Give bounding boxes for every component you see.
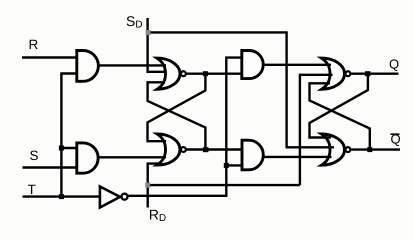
- wire S_D drop into NOR1: [148, 18, 167, 72]
- label S_D: [127, 16, 142, 27]
- NOR gate 3 (slave Q gate): [322, 58, 345, 89]
- wire NOR4 output to Qbar: [351, 148, 400, 150]
- junction master Q node: [203, 71, 208, 76]
- output label Q: [390, 59, 399, 71]
- wire AND4 output: [263, 156, 332, 158]
- AND gate 4 (master Qbar, T-bar): [242, 140, 263, 170]
- junction slave Q node: [365, 71, 371, 76]
- AND gate 2 (T, S): [77, 143, 98, 173]
- wire R_D vertical to NOR3: [300, 75, 333, 185]
- input label R: [30, 40, 38, 49]
- wire master cross P: [148, 74, 206, 142]
- wire T-bar from inverter up to AND3: [128, 58, 243, 196]
- wire T-bar to AND4: [226, 164, 243, 166]
- input label S: [30, 151, 38, 161]
- wire slave feedback F: [310, 83, 370, 149]
- output label Qbar: [391, 134, 400, 146]
- wire slave cross P: [310, 74, 368, 138]
- wire NOR3 output to Q: [351, 72, 399, 74]
- AND gate 1 (R, T): [77, 51, 99, 82]
- wire S_D branch horizontal: [148, 31, 287, 33]
- junction master Qbar node: [203, 147, 209, 152]
- NOT gate (clock inverter): [100, 187, 120, 208]
- junction R_D (gray): [145, 183, 150, 188]
- junction slave Qbar node: [367, 147, 372, 152]
- junction clock-AND2: [59, 146, 64, 151]
- wire R_D into NOR2: [148, 164, 161, 186]
- wire R_D horizontal: [148, 184, 300, 186]
- AND gate 3 (T-bar, master Q): [242, 51, 263, 79]
- label R_D: [150, 210, 166, 221]
- wire clock to AND1: [61, 74, 78, 76]
- wire NOR1 output to AND3: [186, 72, 243, 74]
- wire R_D riser: [146, 185, 148, 207]
- wire S input: [23, 166, 79, 168]
- wire clock to AND2: [61, 147, 78, 149]
- wire T input: [23, 195, 101, 197]
- wire master feedback F: [148, 82, 206, 149]
- junction T-bar AND4: [224, 163, 229, 168]
- wire S_D branch vertical: [285, 31, 287, 147]
- input label T: [28, 185, 36, 194]
- wire AND3 output: [262, 64, 331, 66]
- wire AND1 output: [97, 64, 166, 66]
- NOR gate 1 (master set gate): [157, 58, 180, 89]
- wire AND2 output: [97, 156, 166, 158]
- junction S_D (gray): [146, 30, 151, 35]
- NOR gate 4 (slave Qbar gate): [322, 134, 345, 165]
- overline of Qbar: [391, 133, 400, 135]
- wire clock vertical: [60, 75, 62, 197]
- wire S_D into NOR4: [286, 146, 334, 148]
- wire R input: [22, 56, 78, 58]
- NOR gate 2 (master reset gate): [157, 134, 180, 165]
- wire NOR2 output to AND4: [186, 148, 243, 150]
- junction clock-T: [59, 194, 64, 199]
